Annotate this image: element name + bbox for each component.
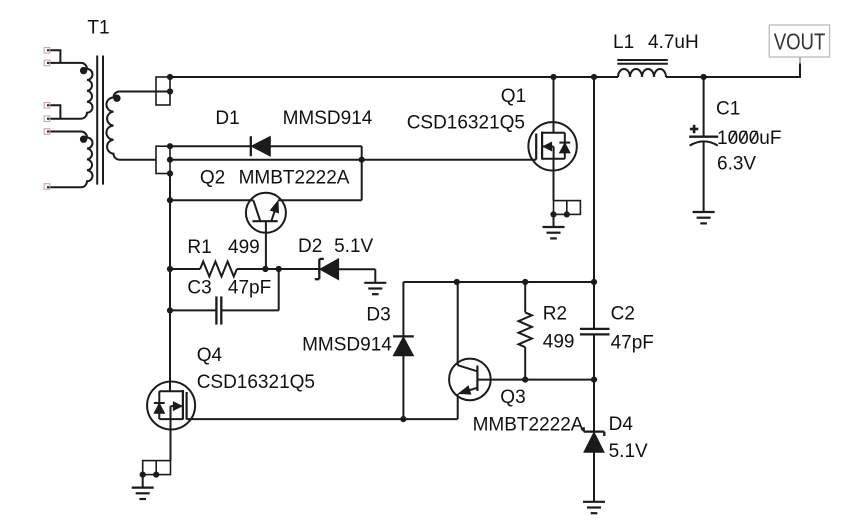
node Q2 collector on left rail: [167, 197, 173, 203]
wire pin3 jog of T1: [47, 105, 60, 118]
node C2 branch on rail: [591, 74, 597, 80]
label C1 value: [717, 128, 781, 149]
transformer T1 label: [87, 18, 109, 39]
svg-text:Q3: Q3: [500, 387, 525, 408]
diode D3 MMSD914: [393, 336, 414, 355]
svg-text:C2: C2: [611, 304, 635, 325]
wire C1 bottom: [703, 142, 705, 212]
node C3 on left rail: [167, 307, 173, 313]
label D1 part: [283, 108, 373, 129]
svg-text:47pF: 47pF: [228, 277, 271, 298]
svg-text:CSD16321Q5: CSD16321Q5: [407, 112, 525, 133]
node 594 at low rail: [591, 377, 597, 383]
node Q1 drain on rail: [550, 74, 556, 80]
transistor Q2 MMBT2222A: [246, 193, 286, 269]
label C1 voltage: [717, 154, 756, 175]
label L1 value: [613, 32, 699, 53]
wire D1 cathode row: [170, 145, 251, 147]
pin square T1-2: [44, 60, 50, 66]
svg-text:D3: D3: [366, 304, 390, 325]
node C3 branch junction: [276, 266, 282, 272]
wire low rail: [477, 379, 594, 381]
transformer T1 secondary polarity dot: [113, 95, 120, 102]
transformer T1 core: [97, 56, 103, 185]
label C3: [187, 277, 211, 298]
wire D3 anode: [402, 356, 404, 419]
wire R2 bottom: [524, 347, 526, 379]
node J3 mid: [564, 211, 570, 217]
svg-text:T1: T1: [87, 18, 109, 39]
wire VOUT drop: [799, 57, 801, 78]
label D2: [298, 236, 322, 257]
capacitor C1: [689, 125, 718, 146]
svg-text:MMSD914: MMSD914: [283, 108, 373, 129]
net label VOUT: [769, 25, 829, 57]
wire C3 left: [170, 309, 216, 311]
node J1 mid: [167, 88, 173, 94]
wire Q1 source to ground: [553, 214, 555, 227]
svg-text:1000uF: 1000uF: [717, 128, 781, 149]
wire mid rail: [403, 281, 594, 283]
pin square T1-5: [44, 129, 50, 135]
node Q3 collector on mid rail: [454, 279, 460, 285]
node J3 left: [550, 211, 556, 217]
jumper box J4 (Q4 source): [143, 461, 171, 475]
svg-text:CSD16321Q5: CSD16321Q5: [197, 372, 315, 393]
label D4 voltage: [609, 441, 648, 462]
wire 594 branch lower: [593, 334, 595, 379]
jumper box J1 (secondary top): [156, 77, 170, 105]
label R1: [187, 237, 211, 258]
node J2 bottom: [167, 170, 173, 176]
capacitor C3: [216, 296, 221, 324]
wire R1 right: [237, 268, 319, 270]
transistor Q1 CSD16321Q5: [528, 77, 576, 171]
label Q4 part: [197, 372, 315, 393]
svg-text:Q1: Q1: [501, 86, 526, 107]
node C1 branch on rail: [701, 74, 707, 80]
wire Q4 source: [170, 419, 172, 461]
transformer T1 primary winding 1: [47, 63, 93, 119]
wire Q2 emitter row: [278, 199, 362, 201]
label R2 value: [543, 332, 575, 353]
svg-text:MMBT2222A: MMBT2222A: [239, 167, 350, 188]
node 594 at mid rail: [591, 279, 597, 285]
svg-text:47pF: 47pF: [611, 333, 654, 354]
wire Q4 source to ground: [142, 475, 144, 488]
resistor R2 499: [519, 312, 532, 347]
label R1 value: [228, 237, 260, 258]
ground below Q4: [132, 488, 154, 499]
label C2: [611, 304, 635, 325]
transformer T1 secondary winding: [106, 92, 156, 160]
ground below C1: [693, 212, 715, 223]
label D3 part: [302, 334, 392, 355]
node R1 on left rail: [167, 266, 173, 272]
wire D3 cathode: [402, 282, 404, 336]
wire top rail left of L1: [170, 76, 618, 78]
label Q1: [501, 86, 526, 107]
diode D1 MMSD914: [251, 136, 270, 156]
node R2 bottom on low rail: [522, 377, 528, 383]
svg-text:MMBT2222A: MMBT2222A: [473, 414, 584, 435]
label R2: [543, 304, 567, 325]
wire Q3 collector: [457, 282, 459, 365]
wire secondary top into J1: [156, 91, 170, 93]
wire left rail: [169, 174, 171, 392]
svg-text:499: 499: [228, 237, 260, 258]
wire 594 branch upper: [593, 77, 595, 329]
pin square T1-4: [44, 116, 50, 122]
svg-text:D4: D4: [609, 414, 634, 435]
svg-text:5.1V: 5.1V: [334, 236, 373, 257]
transformer T1 primary winding 2: [47, 132, 93, 188]
transformer T1 winding 1 polarity dot: [80, 67, 87, 74]
svg-text:Q2: Q2: [200, 167, 225, 188]
node Q1 gate tee: [359, 157, 365, 163]
node J2 mid: [167, 157, 173, 163]
wire C3 right: [221, 309, 278, 311]
ground below D2: [364, 283, 386, 294]
wire Q2 collector row: [170, 199, 253, 201]
label C2 value: [611, 333, 654, 354]
label Q3 part: [473, 414, 584, 435]
wire C1 top: [703, 77, 705, 137]
svg-text:R2: R2: [543, 304, 567, 325]
svg-text:L1: L1: [613, 32, 634, 53]
svg-text:499: 499: [543, 332, 575, 353]
svg-text:Q4: Q4: [197, 345, 223, 366]
jumper box J3 (Q1 source): [554, 201, 581, 215]
node J1 top: [167, 74, 173, 80]
label D3: [366, 304, 390, 325]
wire pin1 jog of T1: [47, 50, 60, 63]
label Q2 part: [239, 167, 350, 188]
svg-text:MMSD914: MMSD914: [302, 334, 392, 355]
label D2 voltage: [334, 236, 373, 257]
wire Q1 gate: [170, 159, 536, 161]
resistor R1 499: [200, 262, 237, 277]
svg-text:D1: D1: [215, 108, 239, 129]
label Q1 part: [407, 112, 525, 133]
wire D1 anode row: [270, 145, 361, 147]
node R2 top on mid rail: [522, 279, 528, 285]
zener diode D2 5.1V: [315, 259, 339, 280]
wire D4 anode: [593, 452, 595, 502]
pin square T1-1: [44, 48, 50, 54]
svg-text:5.1V: 5.1V: [609, 441, 648, 462]
transformer T1 winding 2 polarity dot: [80, 136, 87, 143]
transistor Q4 CSD16321Q5: [147, 382, 195, 430]
zener diode D4 5.1V: [584, 427, 605, 452]
label C3 value: [228, 277, 271, 298]
node Q2 base junction: [262, 266, 268, 272]
wire Q4 gate rail: [187, 418, 458, 420]
wire D2 anode: [339, 269, 376, 283]
svg-text:C1: C1: [716, 99, 740, 120]
inductor L1: [617, 60, 668, 77]
wire C3 right riser: [278, 269, 280, 310]
svg-text:VOUT: VOUT: [774, 29, 826, 55]
svg-text:4.7uH: 4.7uH: [648, 32, 699, 53]
wire top rail right of L1: [666, 76, 800, 78]
node D3 anode on gate rail: [400, 416, 406, 422]
transistor Q3 MMBT2222A: [449, 359, 491, 420]
pin square T1-3: [44, 103, 50, 109]
capacitor C2: [580, 329, 610, 335]
pin square T1-6: [44, 184, 50, 190]
label Q2: [200, 167, 225, 188]
ground below D4: [583, 502, 605, 513]
node J2 top: [167, 143, 173, 149]
label Q4: [197, 345, 223, 366]
wire D4 top: [593, 380, 595, 432]
svg-text:6.3V: 6.3V: [717, 154, 756, 175]
svg-text:C3: C3: [187, 277, 211, 298]
wire right edge down: [361, 146, 363, 200]
wire R2 top: [524, 282, 526, 312]
svg-text:R1: R1: [187, 237, 211, 258]
svg-text:D2: D2: [298, 236, 322, 257]
label D1: [215, 108, 239, 129]
node J4 mid: [153, 472, 159, 478]
jumper box J2 (secondary bottom): [156, 146, 170, 173]
label Q3: [500, 387, 525, 408]
label C1: [716, 99, 740, 120]
wire Q1 source: [553, 159, 555, 201]
wire R1 left: [170, 268, 200, 270]
label D4: [609, 414, 634, 435]
node J4 left: [140, 472, 146, 478]
ground below Q1: [543, 227, 565, 238]
